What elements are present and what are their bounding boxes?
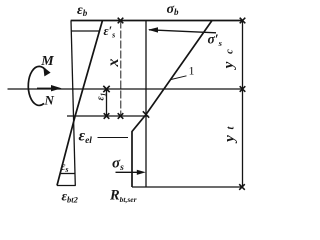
sigma_s arrow shaft — [116, 171, 140, 173]
svg-text:t: t — [226, 125, 237, 129]
svg-text:1: 1 — [189, 64, 195, 78]
compression depth x dimension line (dashed) — [120, 21, 122, 117]
svg-text:x: x — [105, 59, 122, 68]
svg-text:σb: σb — [167, 2, 180, 17]
right dimension line — [242, 21, 244, 188]
svg-text:εel: εel — [79, 128, 93, 147]
top edge line — [71, 20, 243, 22]
svg-text:y: y — [222, 135, 238, 144]
centroid axis line — [8, 88, 243, 90]
sigma_s arrow head — [137, 170, 146, 175]
small dimension line (centroid to neutral axis) — [106, 89, 108, 116]
sigma'_s arrow shaft — [149, 30, 216, 33]
N arrow head — [51, 85, 62, 91]
svg-text:εs: εs — [61, 159, 69, 174]
svg-text:εbt2: εbt2 — [62, 189, 79, 205]
moment arc arrow head — [43, 67, 50, 77]
arrow heads — [37, 27, 158, 175]
section left edge / strain zero axis — [71, 21, 75, 186]
stress zero axis — [145, 21, 147, 188]
svg-text:ε1: ε1 — [96, 93, 108, 101]
tension steel level line — [61, 173, 75, 175]
svg-text:ε′s: ε′s — [104, 24, 116, 40]
svg-text:σs: σs — [112, 156, 124, 174]
svg-text:Rbt,ser: Rbt,ser — [109, 188, 137, 205]
svg-text:εb: εb — [77, 3, 88, 18]
stress distribution line with tension block edge — [132, 21, 212, 188]
svg-text:y: y — [221, 61, 237, 70]
dimension tick marks — [103, 18, 245, 190]
compressed steel strain level line — [71, 30, 99, 32]
bottom edge line — [132, 186, 243, 188]
leader line for eps_el — [98, 137, 129, 139]
svg-text:c: c — [225, 49, 236, 54]
svg-text:M: M — [40, 54, 54, 69]
svg-text:σ′s: σ′s — [208, 32, 223, 49]
N arrow shaft (bold over axis) — [37, 88, 53, 90]
leader line for label 1 — [171, 76, 187, 80]
sigma'_s arrow head — [148, 27, 158, 32]
moment M arc — [28, 66, 46, 105]
strain trapezoid bottom line — [57, 185, 76, 187]
strain distribution line — [57, 20, 103, 185]
svg-text:N: N — [44, 93, 55, 108]
neutral axis level line — [67, 115, 149, 117]
